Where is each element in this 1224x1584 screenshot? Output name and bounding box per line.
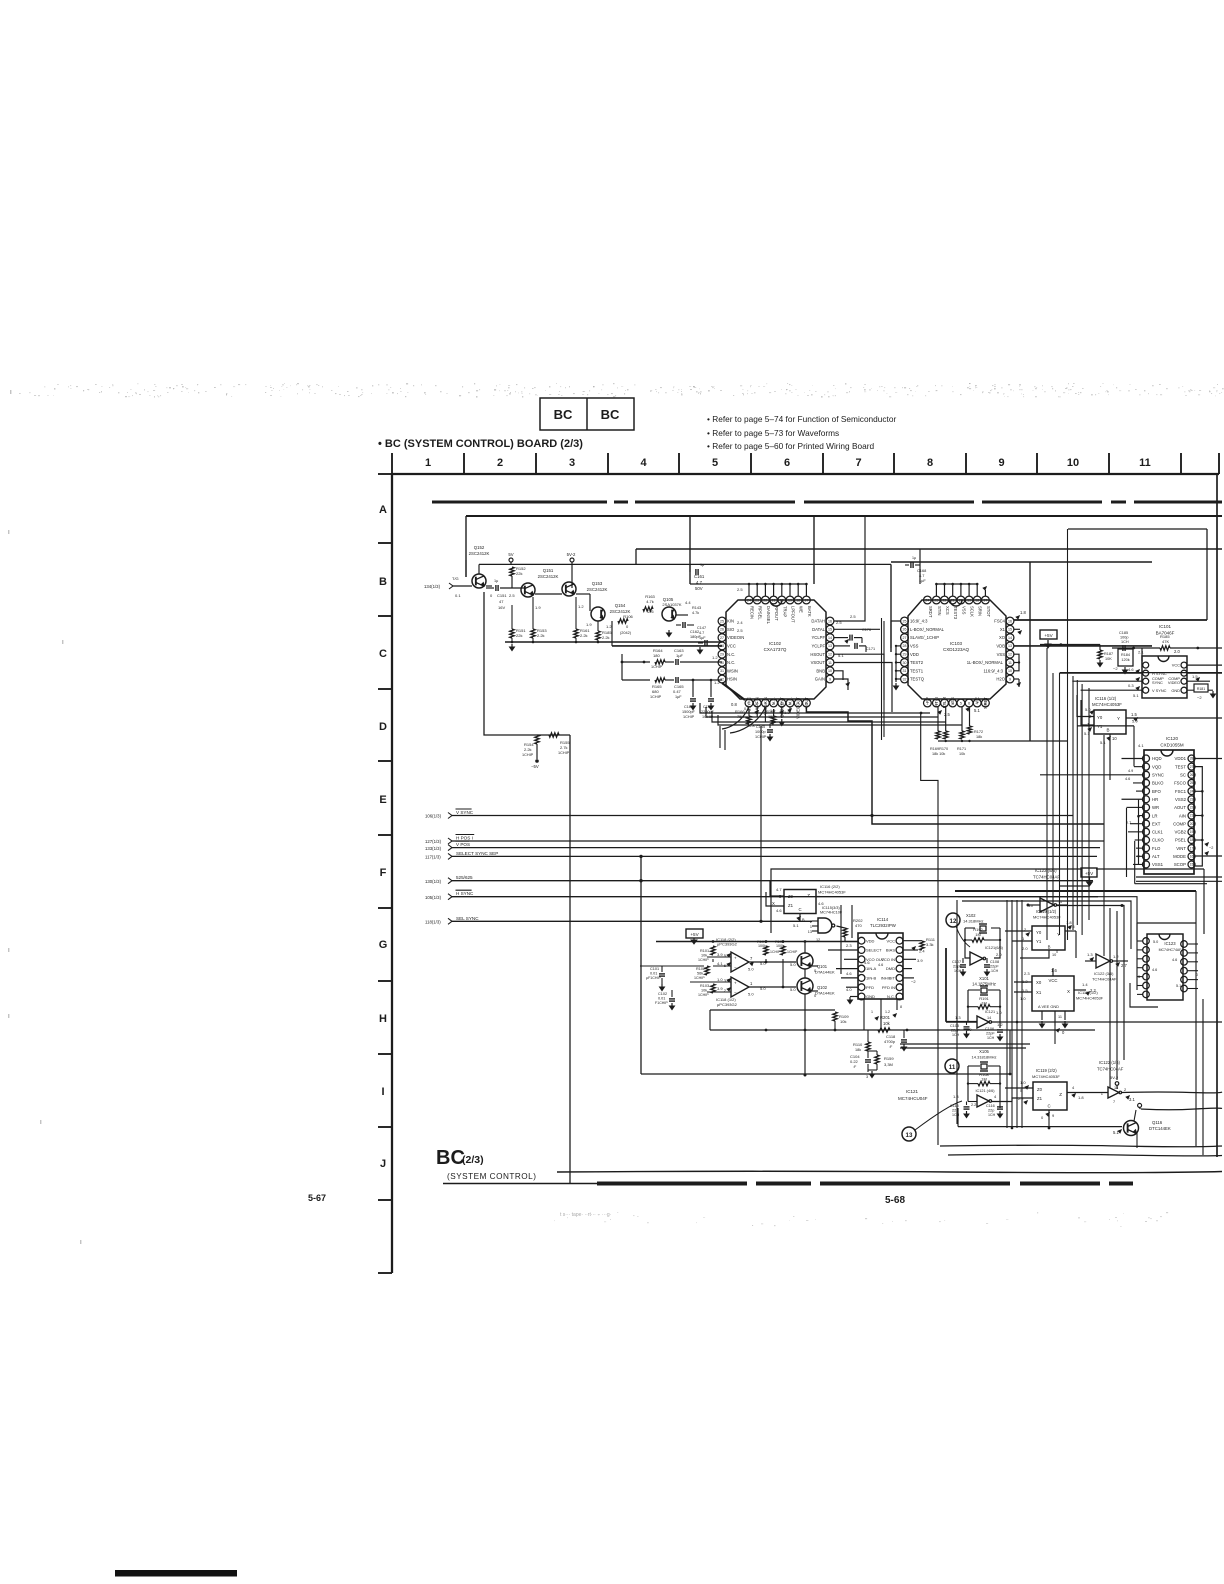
svg-text:Z0: Z0: [1037, 1087, 1043, 1092]
power 5V: [509, 558, 513, 562]
pin 7 WR IC120: [1143, 804, 1150, 811]
svg-text:5: 5: [960, 701, 962, 705]
wire collectors: [804, 942, 806, 954]
pin 3 SYNC IC120: [1143, 771, 1150, 778]
svg-text:19: 19: [1190, 830, 1194, 834]
svg-text:1μ: 1μ: [494, 579, 498, 583]
ground: [511, 644, 513, 647]
svg-text:−: −: [734, 965, 737, 970]
pin 10 IC103: [1006, 667, 1014, 675]
svg-text:Z: Z: [807, 893, 810, 898]
svg-text:14: 14: [1008, 636, 1012, 640]
svg-text:Y1: Y1: [1036, 939, 1042, 944]
svg-text:17: 17: [804, 598, 808, 602]
pin 9 IC103: [1006, 675, 1014, 683]
wire feeds from left: [700, 703, 930, 713]
IC IC102 CXA1737Q: [726, 600, 826, 699]
svg-text:AIN: AIN: [1179, 813, 1186, 818]
pin 30 N.C. IC102: [718, 659, 726, 667]
svg-text:1.0: 1.0: [996, 1010, 1002, 1015]
svg-text:μPC393G2: μPC393G2: [717, 1002, 738, 1007]
pin 18 PSEL IC120: [1188, 837, 1195, 844]
svg-text:VDD: VDD: [910, 652, 919, 657]
svg-text:22pF: 22pF: [986, 1032, 995, 1036]
svg-text:1.2: 1.2: [1113, 954, 1119, 959]
pin 6 IC103: [965, 699, 973, 707]
svg-text:0.3: 0.3: [1128, 683, 1134, 688]
svg-text:4.6: 4.6: [776, 908, 782, 913]
resistor R166 75k: [748, 709, 750, 716]
svg-text:5.1: 5.1: [1100, 740, 1106, 745]
svg-text:EXT: EXT: [1152, 821, 1161, 826]
svg-text:HSOUT: HSOUT: [810, 652, 825, 657]
svg-text:2.5: 2.5: [737, 628, 743, 633]
svg-text:VINT: VINT: [1176, 846, 1186, 851]
svg-text:GND: GND: [866, 994, 875, 999]
svg-text:YCLPF: YCLPF: [812, 635, 826, 640]
capacitor C171: [834, 645, 850, 647]
wire: [1206, 529, 1208, 620]
svg-text:4.4: 4.4: [685, 600, 691, 605]
svg-text:21: 21: [951, 598, 955, 602]
svg-text:HSIN: HSIN: [727, 677, 737, 682]
svg-text:V SYNC: V SYNC: [456, 810, 474, 815]
pin 10 BNB IC102: [826, 667, 834, 675]
wire: [465, 560, 467, 577]
resistor R155 2.7k 1CHIP: [549, 733, 559, 737]
svg-text:V POS: V POS: [456, 842, 470, 847]
wire: [641, 1073, 1010, 1075]
wire IC102 bottom pin stubs: [756, 707, 758, 717]
resistor R161 2.2k: [574, 629, 578, 638]
svg-text:23: 23: [934, 598, 938, 602]
pin 25 16:9/_4:3 IC103: [901, 617, 909, 625]
svg-text:1CHIP: 1CHIP: [683, 715, 695, 719]
svg-text:11: 11: [949, 1064, 956, 1071]
svg-text:2.4: 2.4: [737, 620, 743, 625]
pin 24 SRDT IC103: [924, 596, 932, 604]
svg-text:16:9/_4:3: 16:9/_4:3: [910, 619, 928, 624]
svg-text:MRBT: MRBT: [983, 697, 988, 709]
svg-text:IC114: IC114: [877, 917, 889, 922]
pin 16 DATAH IC102: [826, 617, 834, 625]
svg-text:J: J: [380, 1158, 386, 1170]
svg-text:LR: LR: [1152, 813, 1158, 818]
svg-text:VSS: VSS: [910, 644, 919, 649]
pin 2 YVLPFIN IC102: [753, 699, 761, 707]
svg-text:10: 10: [828, 669, 832, 673]
svg-text:24: 24: [747, 598, 751, 602]
pin 22 AOUT IC120: [1188, 804, 1195, 811]
pin 4 1IN-A IC114: [858, 965, 865, 972]
svg-text:C108: C108: [990, 960, 999, 964]
wire opamp inputs: [707, 956, 731, 958]
svg-text:23: 23: [1190, 797, 1194, 801]
svg-text:25: 25: [903, 619, 907, 623]
svg-text:29: 29: [720, 652, 724, 656]
svg-text:0: 0: [1056, 950, 1058, 954]
svg-text:R181: R181: [1197, 687, 1205, 691]
pin 17 BATK IC102: [803, 596, 811, 604]
resistor R185 2.2k: [596, 631, 600, 640]
svg-text:VSOUT: VSOUT: [811, 660, 826, 665]
svg-text:11: 11: [1139, 457, 1151, 469]
svg-text:B: B: [1106, 728, 1109, 733]
resistor R104 100k 1CHIP: [764, 946, 768, 955]
svg-text:4.7k: 4.7k: [692, 611, 699, 615]
pin left IC123: [1143, 947, 1150, 954]
svg-text:SEL SYNC: SEL SYNC: [456, 916, 479, 921]
svg-text:C: C: [1047, 1104, 1050, 1109]
wire left pin stubs IC103: [895, 646, 897, 682]
svg-text:20: 20: [780, 598, 784, 602]
svg-text:• Refer to page 5–74 for Func: • Refer to page 5–74 for Function of Sem…: [707, 414, 896, 424]
svg-text:2SC2412K: 2SC2412K: [587, 587, 608, 592]
svg-text:DTA144EK: DTA144EK: [815, 991, 835, 996]
pin 32 HSIN IC102: [718, 675, 726, 683]
svg-text:5V-2: 5V-2: [567, 552, 576, 557]
wire IC103 bottom rail: [938, 740, 1030, 742]
wire mux out: [816, 896, 820, 898]
pin 8 IC103: [982, 699, 990, 707]
svg-text:3.1: 3.1: [1129, 1097, 1135, 1102]
svg-text:2.5: 2.5: [944, 712, 950, 717]
pin 1 HQD IC120: [1143, 755, 1150, 762]
svg-text:μPC393G2: μPC393G2: [717, 942, 738, 947]
wire: [956, 900, 958, 1124]
svg-text:VGB2: VGB2: [1175, 830, 1187, 835]
wire IC114 left feeds: [845, 941, 858, 943]
wire: [569, 735, 571, 1183]
svg-text:BFO: BFO: [1152, 789, 1161, 794]
svg-text:• Refer to page 5–60 for Prin: • Refer to page 5–60 for Printed Wiring …: [707, 441, 874, 451]
svg-text:−5V: −5V: [531, 764, 539, 769]
pin 27 TEST IC120: [1188, 763, 1195, 770]
resistor R106 0: [618, 619, 628, 623]
svg-text:10k: 10k: [959, 752, 965, 756]
pin 2 VQD IC120: [1143, 763, 1150, 770]
svg-text:5.0: 5.0: [748, 992, 754, 997]
svg-text:F1CHIP: F1CHIP: [655, 1001, 668, 1005]
svg-text:2.5: 2.5: [509, 593, 515, 598]
svg-text:10: 10: [1008, 669, 1012, 673]
svg-text:DMD: DMD: [886, 966, 895, 971]
svg-text:106(1/3): 106(1/3): [425, 814, 442, 819]
wire B down: [1109, 734, 1111, 780]
svg-text:25: 25: [720, 619, 724, 623]
svg-text:MC74HCU04F: MC74HCU04F: [898, 1096, 928, 1101]
svg-text:22k: 22k: [516, 633, 522, 638]
wire Y out: [1126, 717, 1222, 719]
svg-text:IC101: IC101: [1159, 624, 1172, 629]
wire mux C: [799, 914, 801, 922]
svg-text:VCO IN: VCO IN: [881, 957, 895, 962]
wire opamp out: [749, 961, 796, 963]
resistor R152 22k: [510, 567, 514, 576]
svg-text:B: B: [379, 576, 387, 588]
wire FSC4 out: [1014, 619, 1207, 621]
svg-text:TLC2932IPW: TLC2932IPW: [870, 923, 897, 928]
svg-text:1μ: 1μ: [700, 563, 704, 567]
svg-text:0.01: 0.01: [650, 972, 657, 976]
svg-text:21: 21: [1190, 814, 1194, 818]
pin 11 IC103: [1006, 659, 1014, 667]
resistor R153 2.2k: [531, 629, 535, 638]
svg-text:IC121: IC121: [985, 1010, 995, 1014]
resistor R103 10k 1CHIP: [711, 984, 715, 993]
wire bus horizontals: [1136, 876, 1222, 878]
svg-text:VDB: VDB: [996, 644, 1005, 649]
svg-text:18k 10k: 18k 10k: [932, 752, 945, 756]
wire X out: [1074, 989, 1086, 991]
svg-text:Z: Z: [1059, 1092, 1062, 1097]
svg-text:N.C.: N.C.: [727, 652, 735, 657]
pin 23 STIN IC103: [933, 596, 941, 604]
svg-text:GAIN: GAIN: [815, 677, 825, 682]
capacitor C164 1500pF 1CHIP: [690, 698, 696, 700]
svg-text:130(1/3): 130(1/3): [425, 879, 442, 884]
pin 1 IC103: [924, 699, 932, 707]
pin 3 IC103: [941, 699, 949, 707]
wire bottom rail: [710, 1029, 1095, 1031]
resistor R154 2.2k 1CHIP: [535, 735, 539, 744]
svg-text:2.7k: 2.7k: [560, 745, 568, 750]
svg-text:FLO: FLO: [1152, 846, 1161, 851]
wire: [1009, 1030, 1011, 1074]
svg-text:116:9/_4:3: 116:9/_4:3: [984, 669, 1004, 674]
wire: [900, 1043, 1030, 1045]
svg-text:TRAP: TRAP: [782, 606, 787, 617]
wire box left: [709, 1010, 711, 1030]
capacitor C106 22pF 1CH: [997, 1029, 1003, 1031]
svg-text:2.2: 2.2: [1018, 1096, 1024, 1101]
svg-text:5.1: 5.1: [1133, 693, 1139, 698]
svg-text:118(1/3): 118(1/3): [425, 920, 441, 925]
pin 3 VCO OUT IC114: [858, 956, 865, 963]
svg-text:31: 31: [720, 669, 724, 673]
svg-text:5V: 5V: [508, 552, 513, 557]
svg-text:N.C.: N.C.: [788, 697, 793, 705]
svg-text:IC115(3/3): IC115(3/3): [822, 906, 840, 910]
wire: [505, 641, 722, 643]
svg-text:27: 27: [720, 636, 724, 640]
svg-text:22: 22: [1190, 806, 1194, 810]
wire IC114 bottom stubs: [863, 999, 865, 1030]
pin 8 LR IC120: [1143, 812, 1150, 819]
wire: [1130, 983, 1158, 1007]
pin 23 RPSEL IC102: [753, 596, 761, 604]
svg-text:32: 32: [903, 677, 907, 681]
svg-text:E: E: [379, 794, 386, 806]
wire H2O: [1014, 678, 1019, 680]
svg-text:680: 680: [652, 689, 659, 694]
svg-text:Q152: Q152: [474, 545, 485, 550]
svg-text:VSS: VSS: [961, 606, 966, 615]
svg-text:20: 20: [1190, 822, 1194, 826]
svg-text:SRDT: SRDT: [928, 606, 933, 618]
svg-text:19: 19: [788, 598, 792, 602]
pin 9 PFD IN IC114: [896, 984, 903, 991]
svg-text:PFD IN: PFD IN: [882, 985, 895, 990]
svg-text:SLAVE/_1CHIP: SLAVE/_1CHIP: [910, 635, 939, 640]
svg-text:MC74HC4053F: MC74HC4053F: [818, 890, 846, 895]
svg-text:22pF: 22pF: [953, 965, 962, 969]
wire: [452, 880, 1093, 882]
svg-text:1μF: 1μF: [675, 695, 682, 699]
svg-text:WR: WR: [1152, 805, 1159, 810]
svg-text:R103: R103: [700, 984, 709, 988]
transistor Q105: [662, 607, 676, 621]
svg-text:IC119 (2/2): IC119 (2/2): [1036, 1068, 1057, 1073]
wire Z out: [1067, 1092, 1108, 1094]
wire IC102 bottom-left diagonal: [722, 683, 745, 700]
svg-text:1500pF: 1500pF: [682, 710, 696, 714]
pin 19 SCLK IC103: [965, 596, 973, 604]
svg-text:25: 25: [1190, 781, 1194, 785]
svg-text:1: 1: [425, 457, 431, 469]
wire: [1054, 1026, 1056, 1044]
pin right IC123: [1181, 941, 1188, 948]
svg-text:−2: −2: [1209, 846, 1213, 850]
capacitor C165 0.47 1F: [675, 677, 677, 683]
wire mux in: [770, 880, 784, 896]
wire: [452, 815, 1073, 817]
svg-text:1.2: 1.2: [997, 1022, 1003, 1027]
pin 21 AIN IC120: [1188, 812, 1195, 819]
wire: [1068, 528, 1207, 530]
inverter IC122 (3/6): [1096, 954, 1110, 968]
resistor R102 56k 1CHIP: [705, 966, 709, 975]
svg-text:9: 9: [1009, 677, 1011, 681]
svg-text:C116: C116: [986, 1104, 995, 1108]
wire VCC right: [1187, 664, 1222, 666]
svg-text:XO: XO: [999, 635, 1006, 640]
pin 8 YOUT IC102: [803, 699, 811, 707]
svg-text:1.2: 1.2: [714, 680, 720, 685]
capacitor C115 22p 1CH: [964, 1106, 970, 1108]
transistor Q116 DTC144EK: [1124, 1121, 1139, 1136]
svg-text:D: D: [379, 721, 387, 733]
svg-text:12: 12: [950, 918, 957, 925]
wire IC114 right: [903, 949, 918, 951]
pin 20 TRAP IC102: [778, 596, 786, 604]
wire CLKO down: [1134, 841, 1136, 884]
svg-text:CXA1737Q: CXA1737Q: [764, 647, 787, 652]
wire WR down: [1126, 808, 1128, 877]
svg-text:RECIN: RECIN: [750, 606, 755, 619]
pin 24 RECIN IC102: [745, 596, 753, 604]
svg-text:0.8: 0.8: [731, 702, 737, 707]
svg-text:VSS: VSS: [997, 652, 1006, 657]
svg-text:BNB: BNB: [816, 668, 825, 673]
svg-text:+5V: +5V: [1044, 633, 1053, 638]
pin 5 CURRENT IC102: [778, 699, 786, 707]
wire: [452, 855, 1097, 857]
svg-text:X0: X0: [1036, 980, 1042, 985]
wire: [465, 516, 467, 577]
svg-text:2.7: 2.7: [1121, 963, 1127, 968]
pin 26 SIO IC102: [718, 625, 726, 633]
wire: [890, 564, 892, 652]
resistor R105 100k 1CHIP: [781, 946, 785, 955]
node circled 13: [902, 1127, 916, 1141]
svg-text:14.31818MHz: 14.31818MHz: [972, 1055, 997, 1060]
capacitor C108 22pF 1CH: [984, 964, 990, 966]
wire Y1 in: [1081, 700, 1094, 725]
svg-text:H POS I: H POS I: [456, 836, 473, 841]
wire: [622, 679, 650, 681]
svg-text:KIN: KIN: [727, 619, 734, 624]
svg-text:5.1: 5.1: [974, 708, 980, 713]
pin 29 N.C. IC102: [718, 650, 726, 658]
svg-text:COMP: COMP: [1173, 821, 1186, 826]
svg-text:9: 9: [998, 457, 1004, 469]
svg-text:IC122 (1/6): IC122 (1/6): [1099, 1060, 1121, 1065]
pin right IC123: [1181, 985, 1188, 992]
svg-text:1CH: 1CH: [952, 1033, 960, 1037]
wire IC123 right stubs: [1187, 943, 1198, 945]
svg-text:R159: R159: [884, 1056, 894, 1061]
svg-text:5.0: 5.0: [760, 961, 766, 966]
svg-text:VCC: VCC: [1172, 663, 1180, 668]
svg-text:VSS1: VSS1: [1152, 862, 1164, 867]
svg-text:470: 470: [855, 923, 862, 928]
svg-text:1.4: 1.4: [1082, 982, 1088, 987]
svg-text:16: 16: [828, 619, 832, 623]
svg-text:BATK: BATK: [807, 606, 812, 617]
svg-text:4: 4: [640, 457, 647, 469]
pin 1 CSYNC IC102: [745, 699, 753, 707]
pin 26 L-BOX/_NORMAL IC103: [901, 625, 909, 633]
svg-text:3.3k: 3.3k: [926, 942, 934, 947]
svg-text:CXD1055M: CXD1055M: [1160, 743, 1184, 748]
pin 1 IC101: [1143, 662, 1149, 668]
pin 8 IC101: [1181, 662, 1187, 668]
resistor R165 680 1CHIP: [655, 678, 665, 682]
svg-text:IC116 (2/2): IC116 (2/2): [820, 884, 840, 889]
svg-text:TEST3: TEST3: [953, 606, 958, 620]
svg-text:1CH: 1CH: [991, 969, 999, 973]
power 5V-2: [570, 558, 574, 562]
svg-text:32: 32: [720, 677, 724, 681]
svg-text:1.5: 1.5: [1131, 712, 1137, 717]
pin 6 PFD IC114: [858, 984, 865, 991]
svg-text:120k: 120k: [1121, 658, 1129, 662]
svg-text:Y0: Y0: [1097, 715, 1103, 720]
svg-text:R169R170: R169R170: [930, 747, 948, 751]
svg-text:IC121: IC121: [906, 1089, 919, 1094]
svg-text:N.C.: N.C.: [887, 994, 895, 999]
resistor R187 10K: [1098, 650, 1102, 659]
pin 7 IC103: [973, 699, 981, 707]
svg-text:1M: 1M: [981, 1001, 987, 1006]
svg-text:SCLK: SCLK: [970, 606, 975, 617]
svg-text:5.0: 5.0: [790, 962, 796, 967]
wire: [1030, 740, 1068, 742]
svg-text:1.8: 1.8: [1020, 610, 1026, 615]
svg-text:IC122 (3/6): IC122 (3/6): [1094, 971, 1114, 976]
svg-text:1μ: 1μ: [912, 556, 916, 560]
svg-text:4.1: 4.1: [717, 961, 723, 966]
svg-text:INHIBIT: INHIBIT: [881, 976, 896, 981]
wire IC120 below: [1135, 883, 1207, 885]
wire: [1195, 999, 1197, 1146]
wire: [870, 814, 873, 817]
resistor R202 470: [837, 926, 846, 928]
svg-text:R201: R201: [880, 1015, 891, 1020]
svg-text:L-BOX/_NORMAL: L-BOX/_NORMAL: [910, 627, 945, 632]
svg-text:4.6: 4.6: [864, 960, 870, 965]
